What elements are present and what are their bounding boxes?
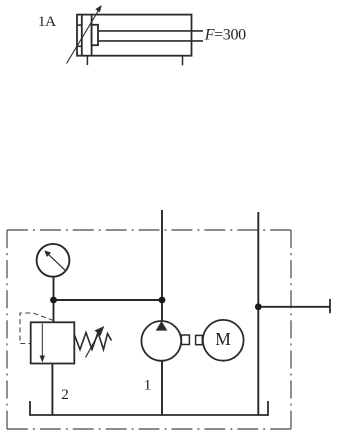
cylinder 1A adjustable-cushion arrow (67, 5, 102, 64)
tank (open reservoir) (30, 401, 268, 415)
junction node at gauge branch (50, 297, 57, 304)
cylinder 1A cushion lower divider (77, 45, 82, 47)
wire: pump suction line down (161, 361, 163, 415)
wire: relief valve supply (53, 300, 55, 322)
wire: relief valve drain to tank (51, 364, 53, 416)
relief valve 2 spring (74, 333, 111, 350)
svg-text:1: 1 (144, 377, 152, 394)
wire: gauge/valve to pump horizontal line (54, 299, 163, 301)
wire: gauge stem (53, 277, 55, 301)
svg-text:F=300: F=300 (204, 27, 246, 44)
electric motor M (203, 320, 244, 361)
cylinder 1A rod collar (92, 25, 98, 45)
relief valve 2 internal flow arrow (40, 324, 45, 363)
relief valve 2 pilot dashed line (20, 313, 54, 344)
junction node at right branch (255, 303, 262, 310)
relief valve 2 body (31, 322, 75, 363)
pump 1 (141, 321, 181, 361)
relief valve 2 spring adjusting arrow (86, 326, 105, 358)
cylinder 1A piston (91, 15, 93, 56)
wire: pump pressure line up (161, 210, 163, 321)
cylinder 1A left port stub (86, 56, 88, 65)
cylinder 1A body (77, 15, 192, 56)
cylinder 1A left cap inner wall (81, 15, 83, 56)
svg-text:2: 2 (61, 386, 69, 403)
shaft coupling square motor side (196, 335, 203, 344)
cylinder 1A piston rod upper line (98, 30, 203, 32)
pressure gauge (37, 244, 70, 277)
shaft coupling square pump side (181, 335, 189, 345)
cylinder 1A piston rod lower line (98, 40, 203, 42)
wire: right vertical line (257, 212, 259, 415)
cylinder 1A right port stub (182, 56, 184, 66)
svg-text:1A: 1A (38, 13, 56, 30)
wire: right branch line (258, 306, 330, 308)
cylinder 1A cushion upper divider (77, 24, 82, 26)
enclosure dash-dot border (power unit boundary) (7, 230, 291, 429)
junction node at pump branch (159, 297, 166, 304)
right branch end bar (329, 299, 331, 313)
svg-text:M: M (215, 329, 231, 349)
